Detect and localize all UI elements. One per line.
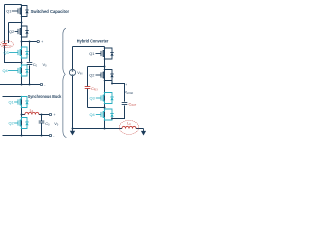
transistor Q2	[96, 70, 114, 81]
svg-text:Q2: Q2	[9, 121, 15, 126]
capacitor COUT (hybrid)	[122, 103, 128, 105]
transistor Q3	[96, 93, 114, 104]
wire L0 to ground (hybrid)	[136, 128, 144, 130]
inductor L0 (hybrid)	[122, 126, 136, 128]
wire output branch (hybrid)	[112, 81, 125, 119]
wire inner rail Q1/Q2 node (SC)	[9, 23, 22, 44]
svg-text:+: +	[41, 40, 43, 44]
transistor Q2	[14, 118, 29, 129]
svg-text:Q3: Q3	[4, 50, 10, 55]
terminal output - (SC)	[40, 83, 42, 85]
wire VIN rail (hybrid)	[72, 47, 74, 129]
svg-text:Q1: Q1	[9, 100, 15, 105]
svg-text:Synchronous Buck: Synchronous Buck	[28, 94, 62, 99]
junction switch node (buck)	[21, 114, 23, 116]
transistor Q1	[14, 97, 29, 108]
wire bottom rail (hybrid)	[73, 128, 123, 130]
wire switch node to L0 (buck)	[22, 114, 25, 116]
curly brace merging both circuits	[63, 28, 67, 137]
junction C0 top (buck)	[41, 114, 43, 116]
junction Q3/Q4 node (SC)	[21, 62, 23, 64]
wire CFLY rail (hybrid)	[88, 67, 105, 108]
wire top (SC input top)	[5, 4, 22, 6]
transistor Q4	[96, 109, 114, 120]
svg-text:Q1: Q1	[89, 51, 95, 56]
junction CFLY top tap (hybrid)	[104, 66, 106, 68]
transistor Q3	[9, 47, 29, 58]
capacitor CFLY (hybrid)	[85, 87, 91, 89]
svg-text:Q3: Q3	[90, 96, 96, 101]
wire C0 branch (buck)	[41, 115, 43, 136]
junction output return tap (hybrid)	[111, 118, 113, 120]
capacitor C0 (buck)	[39, 121, 45, 123]
svg-text:-: -	[44, 83, 45, 87]
wire stack (SC)	[21, 5, 23, 85]
junction stack bottom (SC)	[21, 84, 23, 86]
capacitor C0 (SC)	[27, 63, 33, 65]
junction switch node tap (hybrid)	[111, 83, 113, 85]
wire bottom rail (buck)	[3, 135, 50, 137]
junction VIN negative (hybrid)	[72, 128, 74, 130]
terminal output - (buck)	[49, 134, 51, 136]
svg-text:+: +	[54, 113, 56, 117]
svg-text:Q4: Q4	[3, 68, 9, 73]
svg-text:Q4: Q4	[90, 112, 96, 117]
junction output node at stack (SC)	[21, 41, 23, 43]
transistor Q4	[8, 65, 29, 76]
voltage source VIN	[69, 69, 75, 75]
svg-text:Q2: Q2	[89, 73, 95, 78]
svg-text:Q1: Q1	[6, 9, 12, 14]
wire stack (buck)	[21, 97, 23, 136]
svg-text:-: -	[53, 134, 54, 138]
svg-text:Hybrid Converter: Hybrid Converter	[77, 39, 109, 44]
svg-text:Switched Capacitor: Switched Capacitor	[31, 9, 70, 14]
wire top input (buck)	[3, 96, 22, 98]
transistor Q2	[15, 26, 29, 37]
terminal output + (SC)	[37, 40, 39, 42]
highlight ellipse around CFLY (SC)	[1, 41, 14, 48]
transistor Q1	[12, 6, 29, 17]
junction C0 top (SC)	[29, 41, 31, 43]
terminal output + (buck)	[49, 113, 51, 115]
wire C0 branch (SC)	[29, 42, 31, 85]
wire top rail (hybrid)	[73, 46, 105, 48]
inductor L0 (buck)	[25, 112, 39, 114]
wire outer rail with CFLY (SC)	[5, 5, 22, 63]
svg-text:Q2: Q2	[9, 29, 15, 34]
junction Q1/Q2 node (SC)	[21, 22, 23, 24]
svg-text:+: +	[125, 83, 127, 87]
ground under VIN	[72, 129, 74, 132]
capacitor CFLY (SC flying cap)	[3, 43, 7, 45]
junction stack bottom (buck)	[21, 135, 23, 137]
transistor Q1	[96, 48, 114, 59]
junction stack bottom (hybrid)	[104, 128, 106, 130]
junction C0 bottom (SC)	[29, 84, 31, 86]
wire output bottom (SC)	[0, 84, 40, 86]
wire output top (SC)	[22, 41, 37, 43]
ground right of L0	[143, 129, 145, 132]
highlight ellipse around L0 (hybrid)	[119, 120, 138, 134]
wire L0 to output + (buck)	[39, 114, 49, 116]
junction C0 bottom (buck)	[41, 135, 43, 137]
junction CFLY bottom tap (hybrid)	[104, 107, 106, 109]
wire stack (hybrid)	[104, 47, 106, 129]
